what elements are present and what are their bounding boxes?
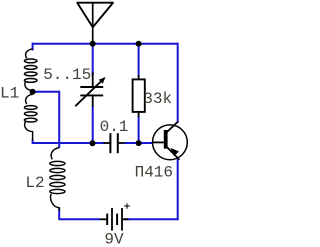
inductor L1 lower half bbox=[24, 94, 37, 140]
node base junction bbox=[136, 140, 142, 146]
transistor VT1 bbox=[153, 122, 188, 160]
wire right rail collector side bbox=[177, 43, 179, 123]
antenna W1 bbox=[77, 3, 114, 43]
inductor L2 bbox=[50, 148, 65, 212]
plus sign of battery bbox=[124, 203, 129, 208]
wire tap to L2 vertical bbox=[58, 91, 60, 148]
arrowhead of C1 bbox=[99, 77, 106, 84]
node antenna junction bbox=[90, 41, 96, 47]
wire left top vertical to L1 bbox=[32, 43, 34, 51]
wire varcap bottom bbox=[92, 106, 94, 144]
svg-text:0.1: 0.1 bbox=[100, 118, 129, 136]
resistor R1 33k bbox=[133, 75, 145, 117]
wire resistor top bbox=[138, 43, 140, 76]
svg-text:33k: 33k bbox=[143, 90, 172, 108]
wire L1 bottom to middle rail bbox=[33, 139, 105, 143]
svg-text:L1: L1 bbox=[0, 84, 19, 102]
wire L2 bottom lead bbox=[58, 208, 60, 220]
svg-text:5..15: 5..15 bbox=[43, 66, 91, 84]
wire top rail bbox=[33, 43, 178, 45]
wire bottom battery left bbox=[59, 218, 100, 220]
wire middle rail right of C2 bbox=[124, 142, 153, 144]
wire resistor bottom bbox=[138, 116, 140, 144]
battery GB1 9V bbox=[100, 208, 129, 231]
variable capacitor C1 bbox=[75, 73, 103, 107]
node varcap bottom junction bbox=[90, 140, 96, 146]
wire bottom battery right bbox=[125, 218, 179, 220]
capacitor C2 0.1 bbox=[104, 133, 125, 153]
svg-text:9V: 9V bbox=[104, 230, 124, 247]
node resistor top junction bbox=[136, 41, 142, 47]
wire right rail emitter side bbox=[177, 159, 179, 221]
node L1 tap bbox=[30, 89, 36, 95]
svg-text:L2: L2 bbox=[25, 174, 44, 192]
inductor L1 upper half bbox=[24, 49, 37, 91]
wire L1 tap horizontal bbox=[33, 91, 60, 93]
wire antenna column varcap top bbox=[92, 44, 94, 75]
svg-text:П416: П416 bbox=[135, 164, 173, 182]
